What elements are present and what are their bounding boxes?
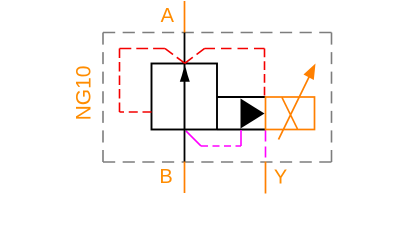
drain line from spool, horizontal segment (magenta dashed) [201, 145, 241, 147]
pilot line V onto spool top (red dashed) [165, 49, 185, 64]
svg-text:B: B [159, 166, 172, 188]
svg-text:NG10: NG10 [73, 66, 96, 121]
drain line to Y (magenta dashed) [265, 131, 267, 162]
check valve (filled triangle) [241, 99, 265, 129]
check valve channel bottom wire [217, 129, 266, 131]
proportional adjustment arrowhead [304, 64, 316, 81]
port B line (orange outside enclosure) [184, 162, 186, 194]
proportional solenoid box [266, 97, 315, 130]
flow arrowhead (points up to A) [180, 65, 190, 82]
flow path line inside valve [184, 64, 186, 130]
pilot line to solenoid (red dashed) [205, 48, 265, 50]
solenoid cross stroke [282, 98, 298, 130]
svg-text:A: A [161, 5, 175, 27]
check valve channel top wire [217, 96, 266, 98]
drain line from spool, diagonal segment (magenta) [186, 131, 201, 146]
svg-text:Y: Y [274, 166, 287, 188]
wire A to valve (black inside enclosure) [184, 33, 186, 65]
drain line from spool, vertical segment (magenta) [240, 130, 242, 146]
pilot line tap from valve left side (red dashed) [120, 49, 265, 113]
port Y line (orange outside enclosure) [265, 162, 267, 194]
wire valve to B (black inside enclosure) [184, 130, 186, 162]
port A line (orange outside enclosure) [184, 1, 186, 33]
proportional adjustment arrow shaft [279, 75, 311, 140]
main valve body (square) [152, 64, 218, 130]
enclosure (valve boundary, gray dashed) [103, 33, 332, 163]
